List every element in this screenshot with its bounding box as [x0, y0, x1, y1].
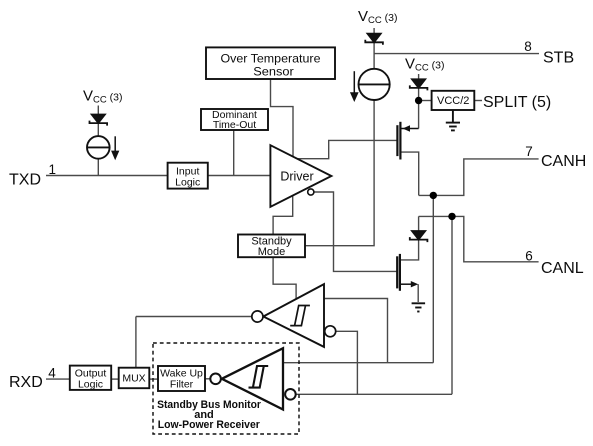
zener diode D1 — [90, 114, 108, 125]
wire Dominant Time-Out drop — [233, 130, 235, 176]
wire node VSPLIT to VCC/2 box — [419, 100, 432, 102]
arrow Q1 drain — [403, 125, 410, 131]
box Wake Up Filter — [158, 366, 205, 391]
wire CANL node horizontal — [419, 216, 539, 261]
wire zener D4 anode — [418, 216, 420, 231]
svg-text:TXD: TXD — [9, 172, 41, 189]
wire CANL receive bus — [296, 393, 452, 395]
wire Wake Up Filter to Receiver2 bubble — [205, 378, 210, 380]
bubble Receiver2 output — [210, 374, 221, 385]
wire Input Logic to Driver — [208, 175, 271, 177]
hysteresis symbol Receiver1 — [290, 306, 310, 326]
box MUX — [119, 368, 150, 389]
zener diode D2 — [365, 34, 383, 45]
ground below VCC/2 — [446, 110, 460, 130]
svg-text:STB: STB — [543, 49, 574, 66]
svg-text:6: 6 — [525, 249, 533, 264]
zener diode D4 — [410, 231, 428, 242]
wire Standby Mode to current source I2 — [305, 100, 374, 246]
svg-text:Time-Out: Time-Out — [213, 119, 256, 131]
svg-text:4: 4 — [48, 366, 56, 381]
svg-text:CANL: CANL — [541, 260, 584, 277]
box Output Logic — [70, 366, 111, 390]
box Dominant Time-Out — [201, 109, 268, 130]
wire Output Logic to MUX — [111, 378, 119, 380]
svg-text:VCC/2: VCC/2 — [437, 95, 469, 107]
dashed box Standby Bus Monitor — [153, 343, 299, 434]
bubble Driver low-side output — [308, 189, 314, 195]
svg-text:RXD: RXD — [9, 374, 43, 391]
op-amp Receiver1 — [263, 284, 324, 347]
wire CANH node horizontal — [419, 159, 539, 196]
wire CANH receive bus — [283, 362, 433, 364]
wire Vcc branch to TXD node — [97, 106, 99, 115]
transistor Q2 NMOS low-side — [397, 254, 412, 291]
op-amp Receiver2 low-power — [222, 348, 283, 409]
svg-text:CANH: CANH — [541, 153, 586, 170]
wire Receiver1 inverting input — [336, 331, 358, 394]
wire zener D2 to current source I2 — [373, 42, 375, 69]
wire Receiver1 output to MUX — [136, 316, 252, 318]
bubble Receiver1 inverting input — [325, 326, 336, 337]
svg-text:8: 8 — [524, 39, 532, 54]
wire Over Temperature Sensor to Driver — [271, 79, 294, 157]
zener diode D3 — [410, 79, 428, 90]
arrow Q2 source — [411, 281, 418, 287]
wire RXD — [46, 378, 70, 380]
current source I2 — [359, 69, 390, 100]
svg-text:7: 7 — [525, 144, 533, 159]
wire Standby Mode to Receiver enable — [273, 257, 296, 299]
svg-text:Low-Power Receiver: Low-Power Receiver — [158, 419, 261, 431]
wire Driver top output to PMOS gate — [297, 140, 397, 158]
op-amp Driver — [270, 145, 331, 207]
wire Driver bubble output to NMOS gate — [314, 192, 397, 271]
bubble Receiver1 output — [252, 311, 263, 322]
wire NMOS source to ground — [417, 284, 419, 302]
wire VCC/2 box to SPLIT pin — [474, 100, 482, 102]
bubble Receiver2 inverting input — [285, 389, 296, 400]
wire zener D4 to NMOS drain — [400, 239, 419, 260]
wire STB — [374, 53, 539, 55]
svg-text:Sensor: Sensor — [253, 64, 294, 78]
box Input Logic — [168, 163, 208, 189]
hysteresis symbol Receiver2 — [249, 366, 269, 388]
wire Vcc split branch — [418, 74, 420, 79]
transistor Q1 PMOS high-side — [397, 122, 418, 160]
current source I1 — [87, 136, 110, 159]
svg-text:Driver: Driver — [280, 169, 313, 183]
svg-text:Mode: Mode — [258, 246, 286, 258]
wire zener D1 to current source I1 — [97, 123, 99, 136]
ground below NMOS — [412, 303, 426, 311]
wire Vcc top to zener D2 — [373, 28, 375, 34]
box Over Temperature Sensor — [206, 47, 335, 79]
arrow current I1 — [112, 136, 118, 158]
wire CANL to receiver divider — [451, 216, 453, 394]
svg-text:Logic: Logic — [78, 378, 103, 390]
wire PMOS source to CANH node — [400, 152, 418, 195]
svg-text:Logic: Logic — [175, 177, 200, 189]
wire Receiver1 top input — [324, 299, 388, 363]
svg-text:SPLIT (5): SPLIT (5) — [483, 94, 551, 111]
node CANL junction — [448, 213, 455, 220]
box VCC/2 — [432, 91, 475, 110]
wire zener D3 to node VSPLIT — [418, 88, 420, 101]
wire Receiver1 output drop to MUX — [135, 317, 137, 368]
wire MUX to Wake Up Filter — [149, 378, 158, 380]
wire TXD input — [46, 175, 168, 177]
svg-text:MUX: MUX — [122, 373, 145, 385]
svg-text:1: 1 — [49, 162, 57, 177]
svg-text:Filter: Filter — [170, 378, 194, 390]
wire node VSPLIT to PMOS drain — [418, 101, 420, 129]
wire CANH to receiver divider — [432, 195, 434, 362]
arrow current I2 — [351, 71, 357, 100]
node CANH junction — [430, 192, 437, 199]
wire Driver to Standby Mode — [273, 195, 293, 234]
box Standby Mode — [238, 235, 305, 258]
node VSPLIT junction — [415, 97, 422, 104]
wire current source I1 to TXD wire — [97, 159, 99, 176]
